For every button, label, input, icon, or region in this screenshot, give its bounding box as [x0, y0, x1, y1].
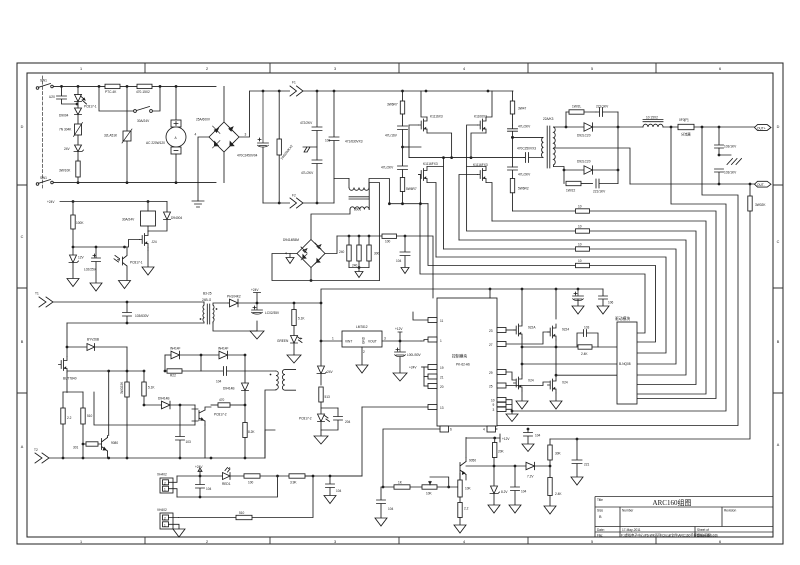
switch SW1 top	[36, 84, 53, 90]
svg-text:D9004: D9004	[59, 114, 69, 118]
svg-text:K1116X3: K1116X3	[430, 115, 443, 119]
border zone numbers bottom	[80, 540, 721, 544]
resistor 513	[319, 387, 323, 408]
svg-text:3W02K: 3W02K	[755, 203, 766, 207]
diode IN414F second	[219, 351, 245, 359]
gate drive transformer winding left	[265, 371, 278, 458]
svg-text:221: 221	[584, 463, 590, 467]
wire trigger loop bottom	[177, 476, 278, 497]
current transformer 3001 core	[349, 197, 369, 199]
ground arrow below 104 pin4	[522, 444, 534, 452]
wire J24 drain source	[147, 231, 149, 251]
resistor 470-15X2	[137, 84, 152, 88]
wire driver upper-right	[555, 289, 557, 375]
wire T2 bus line	[49, 457, 265, 459]
svg-text:SW1: SW1	[40, 79, 47, 83]
transistor X24 driver lower-left	[514, 375, 523, 391]
diode PH104K2	[228, 299, 321, 307]
transistor K1116X3 upper-left	[419, 117, 428, 133]
svg-text:C: C	[777, 240, 780, 244]
resistor 301	[83, 442, 102, 446]
resistor 5W6R7 x402 lower	[400, 178, 404, 204]
svg-text:10: 10	[491, 398, 495, 402]
svg-text:分流器: 分流器	[681, 132, 691, 137]
LM7812 ground pin	[356, 347, 368, 373]
svg-text:9: 9	[493, 403, 495, 407]
snubber top resistor 1W/2L	[566, 110, 596, 127]
svg-text:240: 240	[339, 250, 345, 254]
connector VH402	[160, 513, 179, 529]
svg-text:D: D	[21, 125, 24, 129]
transformer B3-25 core	[207, 304, 209, 324]
wire lower-left gate	[419, 175, 421, 204]
resistor 8.2K	[243, 406, 247, 459]
wire diode row to gate transformer	[244, 355, 246, 383]
connector chevron F2 on bus	[290, 198, 303, 208]
wire pot feedback row	[383, 486, 460, 488]
svg-text:2.4K: 2.4K	[555, 492, 562, 496]
svg-text:3: 3	[493, 408, 495, 412]
junction dots midpoint	[442, 156, 472, 159]
capacitor 47L/16V x402	[398, 126, 408, 147]
capacitor 470C250VX3 series blocking	[524, 153, 543, 163]
svg-text:104: 104	[535, 434, 541, 438]
wire trigger loop top	[177, 475, 223, 477]
transistor BUT7840 mosfet	[59, 357, 68, 373]
ground arrow at bridge left	[286, 254, 294, 264]
wire primary bottom line	[67, 322, 204, 324]
current transformer 3001 primary	[334, 179, 428, 204]
resistor 20K	[493, 438, 497, 466]
junction dots y466 row	[493, 428, 579, 468]
svg-text:204: 204	[345, 420, 351, 424]
svg-text:2: 2	[206, 540, 208, 544]
svg-text:103: 103	[325, 139, 331, 143]
opto PC817-2 LED with cap 204 loop	[318, 408, 339, 430]
rectifier bridge D9414B5M	[272, 236, 379, 281]
svg-text:+12V: +12V	[395, 327, 403, 331]
svg-text:D92LC20: D92LC20	[577, 134, 591, 138]
junction dots gate transformer	[244, 354, 247, 407]
control module pin 20	[424, 384, 437, 389]
svg-text:File:: File:	[597, 533, 603, 537]
svg-text:510: 510	[239, 511, 245, 515]
wire upper-left source inward	[427, 133, 452, 158]
svg-text:C: C	[21, 235, 24, 239]
label +12V tag	[398, 332, 402, 341]
label +24V tick	[422, 366, 425, 368]
svg-text:1: 1	[164, 523, 166, 527]
svg-text:27: 27	[489, 343, 493, 347]
junction dot nest pin feed	[511, 410, 514, 413]
capacitor 103/630V	[123, 302, 132, 323]
junction dots driver rail	[521, 288, 580, 349]
svg-text:GND: GND	[362, 336, 366, 344]
svg-text:+24V: +24V	[47, 200, 55, 204]
wire B3-25 secondary top	[213, 303, 228, 305]
svg-text:24B-G: 24B-G	[202, 298, 212, 302]
wire 9050 collector to +12V	[466, 438, 500, 458]
border zone tick marks bottom	[145, 537, 656, 544]
wire lower-left source to nest	[427, 183, 436, 258]
svg-text:B: B	[777, 340, 780, 344]
svg-text:3: 3	[384, 337, 386, 341]
capacitor 47L/2KV mid column	[312, 160, 322, 203]
resistor 470	[211, 403, 245, 407]
zener 8.2V	[490, 466, 500, 505]
svg-text:30A/24V: 30A/24V	[137, 119, 150, 123]
wire nest row 257	[436, 257, 666, 353]
resistor 100 trigger	[244, 474, 313, 478]
capacitor 104 y466	[511, 466, 520, 505]
svg-text:B: B	[21, 340, 24, 344]
svg-text:1: 1	[332, 337, 334, 341]
ground triangle below GREEN	[287, 355, 301, 363]
wire driver lower-right source to ground	[555, 393, 557, 401]
wire 9080 emitter to bus	[108, 457, 109, 459]
svg-text:104: 104	[216, 380, 222, 384]
svg-text:13: 13	[440, 406, 444, 410]
transistor J24 mosfet	[140, 232, 149, 248]
ground arrow pins 10 9 3	[506, 414, 518, 422]
svg-text:D9414B: D9414B	[223, 387, 235, 391]
svg-text:U20: U20	[49, 95, 55, 99]
resistor 1W0390KX2	[277, 91, 281, 203]
svg-text:20K: 20K	[498, 450, 505, 454]
wire nest row 240	[459, 240, 686, 375]
varistor 32LA51K	[122, 86, 132, 182]
svg-text:11: 11	[440, 319, 444, 323]
snubber bottom capacitor 221/1KV	[596, 179, 618, 188]
diode D92LC20 top	[584, 123, 593, 131]
svg-text:10: 10	[578, 225, 582, 229]
bridge rectifier 25A/600V	[198, 86, 250, 201]
capacitor 103/1KV lower	[715, 169, 724, 184]
svg-text:RED1: RED1	[222, 482, 231, 486]
capacitor electrolytic +70C2450V04	[258, 91, 269, 203]
svg-text:2: 2	[164, 517, 166, 521]
svg-text:47L/2KV: 47L/2KV	[518, 125, 531, 129]
svg-text:23: 23	[489, 329, 493, 333]
opto PC817-1 transistor	[114, 247, 127, 281]
svg-text:5.1K: 5.1K	[298, 317, 305, 321]
svg-text:29: 29	[489, 371, 493, 375]
ground arrow below 221	[571, 477, 583, 485]
wire 3W022K column	[126, 347, 128, 382]
svg-text:10: 10	[578, 243, 582, 247]
svg-text:3W/10K: 3W/10K	[59, 169, 71, 173]
control module pin 13	[362, 405, 437, 410]
svg-text:10K: 10K	[426, 492, 433, 496]
svg-text:513: 513	[325, 395, 331, 399]
label +24V tag aux	[254, 293, 261, 304]
border frame inner	[27, 73, 773, 537]
resistor PTC-4K	[105, 84, 120, 88]
resistor 510	[81, 392, 85, 458]
capacitor L00L/50V electrolytic	[395, 341, 406, 357]
polarity dot B3-25	[200, 308, 218, 320]
LM7812 regulator box	[321, 331, 421, 347]
connector chevron F1 on bus	[290, 86, 303, 96]
capacitor 104 aux	[201, 355, 276, 376]
transistor 9224 driver upper-right	[548, 324, 557, 340]
capacitor 104 current set	[326, 476, 335, 496]
ground arrow below 104	[401, 268, 409, 274]
svg-text:5W6R2: 5W6R2	[518, 187, 529, 191]
resistor 2.2 emitter	[458, 497, 462, 525]
capacitor LC02/35V electrolytic	[252, 303, 263, 314]
svg-text:4: 4	[285, 252, 287, 256]
svg-text:3.9K: 3.9K	[290, 481, 297, 485]
wire +24V relay rail	[60, 201, 167, 203]
wire opto feedback row y425	[94, 392, 195, 425]
svg-text:0F0[P]: 0F0[P]	[679, 118, 689, 122]
junction dots 24V section	[72, 200, 150, 248]
chassis ground output	[719, 148, 742, 165]
diode 7.2V	[526, 462, 550, 469]
svg-text:K1116FX3: K1116FX3	[473, 163, 488, 167]
label +12V tick collector	[499, 434, 501, 442]
junction dots output	[563, 126, 752, 186]
opto PC817-1 LED	[75, 86, 87, 108]
junction dots resistor rail	[348, 235, 407, 269]
svg-text:104: 104	[388, 507, 394, 511]
svg-text:4: 4	[483, 428, 485, 432]
wire opto emitter down	[204, 425, 206, 458]
svg-text:OUT+: OUT+	[757, 127, 766, 131]
ground arrow below L02/25V	[90, 283, 102, 291]
svg-text:472/2KV: 472/2KV	[300, 121, 313, 125]
transformer 22A/K3 primary winding	[542, 137, 543, 157]
ground arrow below 104	[509, 505, 521, 513]
svg-text:L02/25V: L02/25V	[84, 268, 97, 272]
svg-text:7.2V: 7.2V	[527, 475, 534, 479]
ground triangle below cap L02/35V	[250, 321, 264, 339]
wire nest row 211 with resistor 10	[513, 210, 576, 212]
diode D9004	[75, 108, 82, 124]
ground arrow below L00/50V	[572, 306, 584, 314]
wire nest row 221	[492, 221, 706, 394]
svg-text:25A/600V: 25A/600V	[196, 118, 211, 122]
svg-text:Title: Title	[597, 498, 603, 502]
svg-text:PC817-1: PC817-1	[130, 261, 143, 265]
wire nest feedback from OUT-	[550, 211, 750, 439]
wire B3-25 secondary bottom to ground	[213, 322, 257, 331]
ground arrow below 12V	[67, 279, 79, 287]
ground arrow below 240 resistors	[355, 268, 363, 278]
resistor 10K emitter	[458, 474, 462, 498]
svg-text:BYV26B: BYV26B	[87, 338, 99, 342]
wire loop pin13 riser	[361, 407, 363, 476]
svg-text:OUT-: OUT-	[757, 183, 765, 187]
chassis ground stub	[303, 147, 317, 152]
svg-text:103/1KV: 103/1KV	[724, 145, 737, 149]
diode 24V zener x321	[317, 366, 327, 385]
svg-text:6: 6	[450, 428, 452, 432]
svg-text:J24: J24	[152, 240, 157, 244]
svg-text:10: 10	[578, 205, 582, 209]
wire upper-left gate	[409, 125, 419, 158]
border zone tick marks top	[145, 63, 656, 73]
control module pin 19	[424, 365, 437, 370]
wire lower-right source to nest	[486, 183, 492, 222]
wire current set to riser	[330, 475, 362, 477]
svg-text:106: 106	[608, 301, 614, 305]
wire lower-right gate to nest	[459, 175, 478, 241]
svg-text:30A/24V: 30A/24V	[122, 218, 135, 222]
svg-text:100: 100	[248, 481, 254, 485]
capacitor 106	[599, 289, 608, 306]
wire nest feedback from OUT+ right	[497, 127, 738, 426]
svg-text:1: 1	[164, 488, 166, 492]
wire DC+ top bus	[250, 90, 513, 92]
junction dot pot wiper	[447, 486, 450, 489]
wire top AC line	[53, 85, 216, 87]
wire resistor rail y236	[337, 235, 382, 237]
svg-text:3001: 3001	[354, 208, 361, 212]
control module box	[437, 298, 497, 426]
wire nest row 274	[420, 204, 645, 333]
svg-text:47L/2KV: 47L/2KV	[301, 171, 314, 175]
junction dots aux	[66, 301, 402, 373]
svg-text:D9414B5M: D9414B5M	[283, 238, 299, 242]
resistor R22	[167, 369, 201, 373]
svg-text:VOUT: VOUT	[368, 340, 377, 344]
ground below bridge	[192, 201, 204, 207]
svg-text:+24V: +24V	[409, 366, 417, 370]
wire chain mid to transformer primary top	[513, 136, 544, 138]
LED GREEN	[291, 336, 303, 356]
resistor 3W2K bleeder	[748, 184, 752, 211]
svg-text:2.2: 2.2	[67, 416, 72, 420]
svg-text:7N 304K: 7N 304K	[59, 128, 72, 132]
control module pin 27	[497, 332, 550, 347]
wire resistor bottoms	[349, 267, 369, 269]
svg-text:Revision: Revision	[724, 509, 736, 513]
wire half-bridge midpoint	[403, 147, 525, 158]
switch SW1 bottom	[36, 180, 53, 186]
snubber chain capacitor 47L/2KV lower	[508, 167, 518, 179]
svg-text:2.4K: 2.4K	[581, 352, 588, 356]
svg-text:21: 21	[440, 376, 444, 380]
svg-text:5: 5	[591, 67, 593, 71]
svg-text:100K: 100K	[76, 221, 84, 225]
relay contact 30A/24V	[99, 86, 160, 112]
zener 12V	[69, 247, 79, 279]
resistor 100K	[71, 202, 75, 248]
opto PC817-2 receiver	[192, 405, 211, 425]
resistor 510 VH402	[236, 515, 252, 519]
wire bottom AC line	[53, 182, 216, 184]
svg-text:103/1KV: 103/1KV	[724, 171, 737, 175]
ground triangle below PC817-2	[314, 430, 328, 444]
svg-text:X24: X24	[562, 381, 568, 385]
svg-text:LM7812: LM7812	[356, 325, 368, 329]
svg-text:1W/22: 1W/22	[566, 189, 575, 193]
resistor 3.9K	[289, 474, 362, 478]
svg-text:4: 4	[463, 67, 465, 71]
transistor K1116FX3 lower-right	[478, 167, 487, 183]
LED RED	[223, 468, 245, 480]
transistor X24 driver lower-right	[548, 377, 557, 393]
wire 9050 base from pot row	[459, 474, 461, 488]
svg-text:IN414F: IN414F	[218, 347, 229, 351]
svg-text:22A/K3: 22A/K3	[543, 117, 554, 121]
capacitor 47L/2KV x402 lower	[398, 147, 408, 178]
wire 2.2 510 top row	[63, 391, 83, 393]
wire nest feedback from OUT+ left	[512, 127, 726, 411]
wire BUT7840 source row	[67, 370, 144, 372]
svg-text:3W47: 3W47	[518, 107, 527, 111]
resistor 300	[367, 236, 371, 268]
wire nest row 249 with resistor 10	[444, 248, 576, 250]
transistor K1116FX3 lower-left	[419, 167, 428, 183]
control module pin 4	[487, 426, 497, 432]
svg-text:控制模块: 控制模块	[452, 354, 467, 359]
svg-text:300: 300	[374, 252, 380, 256]
ground arrow below 104 x381	[375, 518, 387, 526]
wire upper-left drain	[421, 91, 427, 117]
svg-text:10: 10	[578, 259, 582, 263]
varistor 7N304K	[74, 123, 83, 146]
svg-text:922A: 922A	[528, 326, 536, 330]
wire upper-right gate to nest	[467, 125, 478, 231]
svg-text:24V: 24V	[327, 370, 334, 374]
svg-text:T1: T1	[35, 292, 39, 296]
junction dot pin6 row	[382, 486, 385, 489]
svg-text:Size: Size	[597, 509, 603, 513]
svg-text:47L/16V: 47L/16V	[385, 134, 398, 138]
transistor 9050	[460, 458, 466, 481]
svg-text:LC02/35V: LC02/35V	[265, 311, 280, 315]
snubber chain capacitor 47L/2KV	[508, 125, 518, 167]
svg-text:19: 19	[440, 366, 444, 370]
capacitor 103 x180	[176, 405, 185, 458]
svg-text:PC817-2: PC817-2	[214, 413, 227, 417]
svg-text:PH104K2: PH104K2	[227, 295, 241, 299]
svg-text:47L/2KV: 47L/2KV	[381, 166, 394, 170]
svg-text:9080: 9080	[111, 441, 118, 445]
svg-text:10 15X2: 10 15X2	[646, 116, 658, 120]
svg-text:25: 25	[489, 385, 493, 389]
connector XH402	[160, 476, 177, 497]
svg-text:F1: F1	[292, 81, 296, 85]
svg-text:Drawn By:: Drawn By:	[697, 533, 712, 537]
transformer 22A/K3 core	[547, 126, 550, 168]
svg-text:1: 1	[440, 339, 442, 343]
wire junctions AC top	[60, 85, 177, 184]
svg-text:L00L/50V: L00L/50V	[407, 353, 422, 357]
capacitor 104 at x405	[400, 236, 410, 268]
svg-text:103: 103	[186, 440, 192, 444]
capacitor L02/25V	[92, 247, 101, 283]
svg-text:D92LC20: D92LC20	[577, 160, 591, 164]
diode D9414B horizontal	[144, 401, 195, 409]
capacitor 103/1KV upper	[715, 127, 724, 148]
svg-text:1W/2L: 1W/2L	[572, 105, 581, 109]
wire J24 gate row	[73, 240, 140, 248]
ground arrow below 8.2V	[488, 505, 500, 513]
shunt resistor	[663, 124, 755, 129]
wire BUT7840 drain source	[66, 347, 68, 393]
wire secondary center tap	[554, 148, 631, 184]
svg-text:3W6R7: 3W6R7	[387, 103, 398, 107]
terminal T1 chevron	[39, 297, 53, 307]
svg-text:XH402: XH402	[157, 473, 167, 477]
svg-text:100: 100	[385, 240, 391, 244]
transistor 922A driver upper-left	[514, 322, 523, 338]
svg-text:5: 5	[591, 540, 593, 544]
